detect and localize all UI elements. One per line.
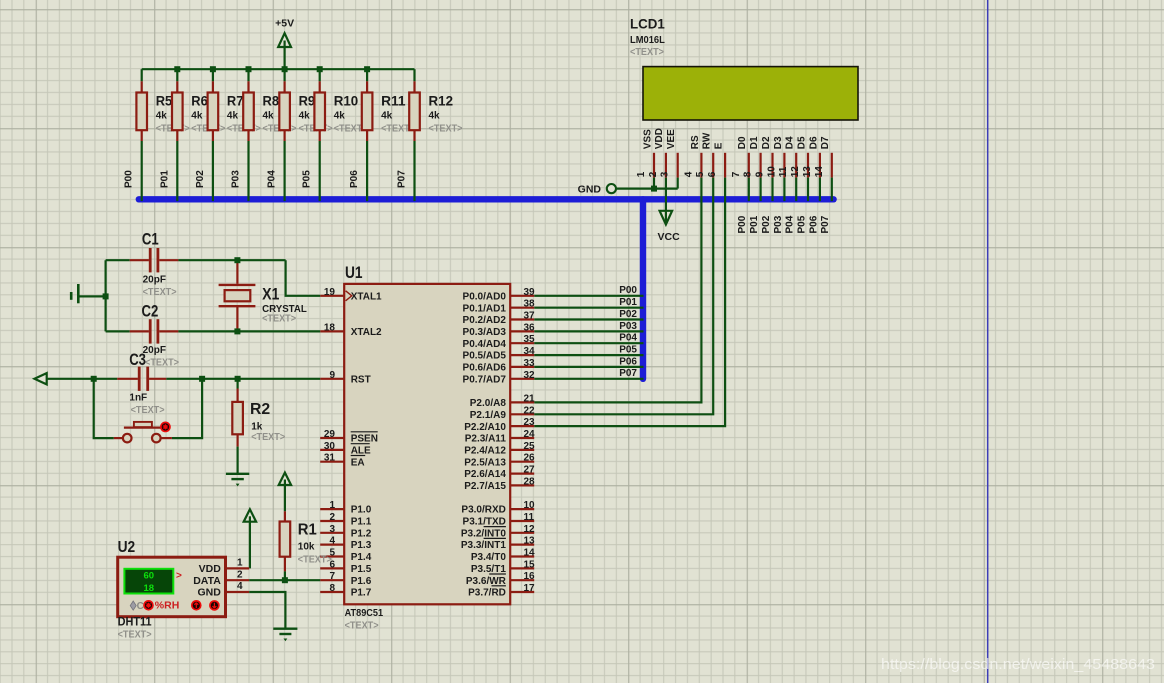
- crystal X1: [219, 260, 307, 331]
- svg-text:XTAL1: XTAL1: [351, 291, 382, 302]
- svg-text:34: 34: [524, 346, 536, 357]
- U1 pin 34 P0.5/AD5: [463, 346, 536, 362]
- svg-text:39: 39: [524, 287, 536, 298]
- sheet border line: [987, 0, 989, 683]
- net labels P00-P07 under bus: [737, 215, 831, 233]
- svg-text:R10: R10: [334, 92, 359, 108]
- U1 pin 4 P1.3: [320, 536, 372, 552]
- svg-text:<TEXT>: <TEXT>: [630, 47, 664, 58]
- U2 pin 4 GND: [197, 581, 249, 598]
- junction RST at R2: [235, 376, 241, 382]
- svg-text:VEE: VEE: [666, 129, 677, 149]
- DHT11 display: [124, 569, 182, 594]
- U1 pin 35 P0.4/AD4: [463, 334, 536, 350]
- svg-text:P02: P02: [619, 309, 637, 320]
- svg-text:P2.6/A14: P2.6/A14: [464, 469, 506, 480]
- svg-text:VDD: VDD: [654, 128, 665, 149]
- U1 pin 10 P3.0/RXD: [461, 500, 535, 516]
- capacitor C3 1nF: [129, 367, 164, 416]
- svg-text:C1: C1: [142, 230, 159, 249]
- svg-text:<TEXT>: <TEXT>: [251, 432, 285, 443]
- svg-text:P0.1/AD1: P0.1/AD1: [463, 303, 507, 314]
- svg-text:35: 35: [524, 334, 536, 345]
- svg-text:R9: R9: [299, 92, 316, 108]
- svg-text:P3.7/RD: P3.7/RD: [468, 588, 506, 599]
- power terminal above R1: [279, 473, 291, 512]
- svg-text:P2.3/A11: P2.3/A11: [465, 434, 507, 445]
- LCD LCD1 display body: [643, 67, 858, 120]
- LCD pin 11 D4: [778, 136, 796, 178]
- svg-text:12: 12: [524, 524, 536, 535]
- wire button right branch: [172, 379, 202, 438]
- LCD pin 8 D1: [743, 136, 761, 178]
- svg-text:15: 15: [524, 559, 536, 570]
- svg-text:<TEXT>: <TEXT>: [118, 629, 152, 640]
- DHT11 down button: [209, 600, 220, 611]
- svg-text:3: 3: [329, 524, 335, 535]
- U1 pin 38 P0.1/AD1: [463, 299, 536, 315]
- svg-text:XTAL2: XTAL2: [351, 327, 382, 338]
- svg-text:4k: 4k: [191, 110, 203, 121]
- wire D3 to bus: [783, 178, 785, 202]
- svg-text:29: 29: [324, 429, 336, 440]
- U1 pin 36 P0.3/AD3: [463, 322, 536, 338]
- svg-text:1: 1: [636, 171, 647, 177]
- svg-text:E: E: [714, 142, 725, 149]
- svg-text:P05: P05: [796, 215, 807, 233]
- resistor R2 1k: [232, 379, 285, 447]
- U1 pin 2 P1.1: [320, 512, 372, 528]
- svg-text:P00: P00: [124, 170, 135, 188]
- svg-text:P01: P01: [619, 297, 637, 308]
- svg-text:VCC: VCC: [658, 231, 681, 243]
- svg-text:P06: P06: [619, 356, 637, 367]
- svg-text:4k: 4k: [227, 110, 239, 121]
- svg-text:6: 6: [707, 171, 718, 177]
- svg-text:P1.6: P1.6: [351, 576, 372, 587]
- svg-text:1nF: 1nF: [129, 393, 147, 404]
- svg-text:24: 24: [524, 429, 536, 440]
- bus horizontal: [139, 196, 834, 202]
- svg-text:32: 32: [524, 370, 536, 381]
- wire D0 to bus: [748, 178, 750, 202]
- wire P07 from R12 to bus: [397, 141, 415, 201]
- wire P00 from R5 to bus: [124, 141, 142, 201]
- svg-text:38: 38: [524, 299, 536, 310]
- +5V power terminal: [275, 17, 294, 69]
- svg-text:<TEXT>: <TEXT>: [262, 314, 296, 325]
- svg-text:P0.7/AD7: P0.7/AD7: [463, 374, 507, 385]
- svg-text:P06: P06: [349, 170, 360, 188]
- svg-text:23: 23: [524, 417, 536, 428]
- svg-text:P2.5/A13: P2.5/A13: [464, 457, 506, 468]
- U1 pin 27 P2.6/A14: [464, 465, 535, 481]
- svg-text:P01: P01: [159, 170, 170, 188]
- U1 pin 19 XTAL1: [320, 287, 382, 303]
- svg-text:EA: EA: [351, 457, 365, 468]
- wire P02 from R7 to bus: [195, 141, 213, 201]
- button interactive marker: [160, 422, 171, 433]
- svg-text:P00: P00: [619, 285, 637, 296]
- svg-text:1k: 1k: [251, 421, 263, 432]
- svg-text:P03: P03: [231, 170, 242, 188]
- LCD pin 9 D2: [755, 136, 773, 178]
- svg-text:RS: RS: [690, 135, 701, 149]
- svg-text:P02: P02: [195, 170, 206, 188]
- svg-text:14: 14: [814, 166, 825, 178]
- svg-text:19: 19: [324, 287, 336, 298]
- wire P0.1 to bus (P01): [534, 297, 643, 308]
- svg-text:P3.1/TXD: P3.1/TXD: [463, 517, 506, 528]
- svg-text:D3: D3: [773, 136, 784, 149]
- svg-text:P1.5: P1.5: [351, 564, 372, 575]
- svg-text:7: 7: [731, 171, 742, 177]
- U1 pin 8 P1.7: [320, 583, 372, 599]
- power rail wire: [142, 68, 415, 70]
- svg-text:PSEN: PSEN: [351, 434, 378, 445]
- wire D1 to bus: [759, 178, 761, 202]
- svg-text:P05: P05: [302, 170, 313, 188]
- svg-text:https://blog.csdn.net/weixin_4: https://blog.csdn.net/weixin_45488643: [881, 656, 1155, 673]
- junction RST left: [91, 376, 97, 382]
- svg-text:36: 36: [524, 322, 536, 333]
- svg-text:13: 13: [802, 166, 813, 178]
- svg-text:11: 11: [524, 512, 535, 523]
- svg-text:2: 2: [237, 569, 243, 580]
- VCC power terminal: [658, 211, 681, 243]
- U1 pin 25 P2.4/A12: [464, 441, 535, 457]
- terminal arrow left: [35, 373, 47, 384]
- wire D4 to bus: [795, 178, 797, 202]
- svg-text:4: 4: [683, 171, 694, 177]
- svg-text:P2.2/A10: P2.2/A10: [464, 422, 506, 433]
- wire P0.0 to bus (P00): [534, 285, 643, 296]
- svg-text:P04: P04: [267, 170, 278, 188]
- svg-text:D5: D5: [796, 136, 807, 149]
- svg-text:R1: R1: [298, 522, 317, 539]
- LCD pin 2 VDD: [648, 128, 666, 178]
- svg-text:P3.4/T0: P3.4/T0: [471, 552, 506, 563]
- LCD LCD1 LM016L labels: [630, 16, 665, 58]
- ground under U2: [273, 628, 297, 630]
- push button (reset): [114, 422, 172, 443]
- svg-text:ALE: ALE: [351, 446, 371, 457]
- GND terminal: [578, 184, 616, 196]
- svg-text:30: 30: [324, 441, 336, 452]
- svg-text:>: >: [176, 571, 182, 582]
- op-amp U1 AT89C51 body: [344, 264, 510, 631]
- svg-text:21: 21: [524, 393, 536, 404]
- svg-text:16: 16: [524, 571, 536, 582]
- svg-text:P07: P07: [397, 170, 408, 188]
- svg-text:R8: R8: [263, 92, 280, 108]
- U1 pin 24 P2.3/A11: [465, 429, 535, 445]
- svg-text:4: 4: [237, 581, 243, 592]
- U1 pin 26 P2.5/A13: [464, 453, 535, 469]
- wire P06 from R11 to bus: [349, 141, 367, 201]
- U2 pin 1 VDD: [199, 558, 250, 575]
- svg-text:DATA: DATA: [193, 575, 221, 587]
- svg-text:12: 12: [790, 166, 801, 178]
- U1 pin 5 P1.4: [320, 548, 372, 564]
- svg-text:AT89C51: AT89C51: [345, 608, 384, 619]
- svg-text:R7: R7: [227, 92, 244, 108]
- svg-text:4k: 4k: [429, 110, 441, 121]
- svg-text:RST: RST: [351, 374, 371, 385]
- wire P01 from R6 to bus: [159, 141, 177, 201]
- wire DATA to P1.6: [249, 579, 320, 581]
- U1 pin 33 P0.6/AD6: [463, 358, 536, 374]
- U1 pin 22 P2.1/A9: [470, 405, 535, 421]
- svg-text:GND: GND: [197, 587, 221, 599]
- capacitor C2 20pF: [142, 301, 180, 368]
- wire left vertical C1-C2: [104, 260, 106, 331]
- U2 pin 2 DATA: [193, 569, 249, 586]
- wire D5 to bus: [807, 178, 809, 202]
- U1 pin 21 P2.0/A8: [470, 393, 535, 409]
- svg-text:P0.5/AD5: P0.5/AD5: [463, 351, 507, 362]
- svg-text:3: 3: [660, 171, 671, 177]
- svg-text:7: 7: [329, 571, 335, 582]
- svg-text:DHT11: DHT11: [118, 616, 153, 628]
- LCD pin 1 VSS: [636, 129, 654, 178]
- svg-text:P1.4: P1.4: [351, 552, 372, 563]
- svg-text:10: 10: [766, 166, 777, 178]
- svg-text:GND: GND: [578, 184, 602, 196]
- wire R1 to DATA: [284, 571, 286, 580]
- U1 pin 32 P0.7/AD7: [463, 370, 536, 386]
- svg-text:P04: P04: [785, 215, 796, 233]
- svg-text:D0: D0: [737, 136, 748, 149]
- svg-text:18: 18: [324, 322, 336, 333]
- svg-text:D2: D2: [761, 136, 772, 149]
- wire P2.0 to LCD RS: [534, 178, 701, 403]
- junction on rail at R9: [282, 66, 288, 72]
- wire P03 from R8 to bus: [231, 141, 249, 201]
- resistor R6 4k: [172, 69, 225, 141]
- svg-text:4k: 4k: [334, 110, 346, 121]
- U1 pin 14 P3.4/T0: [471, 548, 535, 564]
- U1 XTAL1 clock input mark: [346, 291, 352, 301]
- svg-text:<TEXT>: <TEXT>: [131, 405, 165, 416]
- svg-text:P00: P00: [737, 215, 748, 233]
- svg-text:X1: X1: [262, 285, 279, 303]
- svg-text:<TEXT>: <TEXT>: [429, 124, 463, 135]
- svg-text:4k: 4k: [156, 110, 168, 121]
- svg-text:C3: C3: [129, 350, 146, 369]
- resistor R5 4k: [136, 69, 189, 141]
- LCD pin 10 D3: [766, 136, 784, 178]
- svg-text:P0.6/AD6: P0.6/AD6: [463, 363, 507, 374]
- svg-text:1: 1: [237, 558, 243, 569]
- svg-text:25: 25: [524, 441, 536, 452]
- svg-text:28: 28: [524, 476, 536, 487]
- svg-text:33: 33: [524, 358, 536, 369]
- DHT11 status icons: [130, 600, 179, 613]
- wire P0.4 to bus (P04): [534, 333, 643, 344]
- U1 pin 28 P2.7/A15: [464, 476, 535, 492]
- svg-text:R12: R12: [429, 92, 454, 108]
- U1 pin 1 P1.0: [320, 500, 372, 516]
- svg-text:C: C: [137, 601, 144, 612]
- LCD pin 3 VEE: [660, 129, 678, 178]
- wire RST row: [47, 378, 321, 380]
- svg-text:RW: RW: [702, 132, 713, 149]
- svg-text:26: 26: [524, 453, 536, 464]
- U1 pin 37 P0.2/AD2: [463, 311, 536, 327]
- svg-text:20pF: 20pF: [143, 345, 166, 356]
- svg-text:P01: P01: [749, 215, 760, 233]
- svg-text:P05: P05: [619, 344, 637, 355]
- svg-text:<TEXT>: <TEXT>: [345, 621, 379, 632]
- svg-text:P3.3/INT1: P3.3/INT1: [461, 540, 506, 551]
- svg-text:8: 8: [743, 171, 754, 177]
- svg-text:D7: D7: [820, 136, 831, 149]
- wire P2.2 to LCD E: [534, 178, 725, 427]
- junction crystal top: [234, 257, 240, 263]
- resistor R1 10k: [280, 511, 332, 571]
- wire C2 row: [106, 330, 321, 332]
- U1 pin 9 RST: [320, 370, 371, 386]
- svg-text:P0.0/AD0: P0.0/AD0: [463, 291, 507, 302]
- svg-text:9: 9: [755, 171, 766, 177]
- LCD pin 4 RS: [683, 135, 701, 178]
- svg-text:+5V: +5V: [275, 17, 294, 29]
- U1 pin 29 PSEN: [320, 429, 378, 445]
- svg-text:18: 18: [144, 583, 155, 594]
- U1 pin 17 P3.7/RD: [468, 583, 535, 599]
- svg-text:C2: C2: [142, 301, 159, 320]
- svg-text:4k: 4k: [381, 110, 393, 121]
- resistor R9 4k: [279, 69, 332, 141]
- svg-text:P1.2: P1.2: [351, 528, 372, 539]
- svg-text:10: 10: [524, 500, 536, 511]
- LCD pin 6 E: [707, 142, 725, 177]
- U1 pin 11 P3.1/TXD: [463, 512, 535, 528]
- svg-text:P03: P03: [773, 215, 784, 233]
- LCD pin 14 D7: [814, 136, 832, 178]
- wire P04 from R9 to bus: [267, 141, 285, 201]
- svg-text:P03: P03: [619, 321, 637, 332]
- LCD pin 5 RW: [695, 132, 713, 177]
- svg-text:17: 17: [524, 583, 536, 594]
- wire P2.1 to LCD RW: [534, 178, 713, 415]
- svg-text:P1.3: P1.3: [351, 540, 372, 551]
- svg-text:P3.6/WR: P3.6/WR: [466, 576, 507, 587]
- svg-text:9: 9: [329, 370, 335, 381]
- resistor R12 4k: [409, 69, 462, 141]
- svg-text:P1.7: P1.7: [351, 588, 372, 599]
- wire VDD to VCC: [665, 178, 667, 222]
- junction ground tap: [103, 293, 109, 299]
- wire R2 to ground: [237, 447, 239, 474]
- wire D2 to bus: [771, 178, 773, 202]
- svg-text:D6: D6: [808, 136, 819, 149]
- svg-text:P3.2/INT0: P3.2/INT0: [461, 528, 506, 539]
- bus vertical: [640, 199, 646, 378]
- LCD pin 13 D6: [802, 136, 820, 178]
- svg-text:P07: P07: [820, 215, 831, 233]
- resistor R7 4k: [208, 69, 261, 141]
- svg-text:13: 13: [524, 536, 536, 547]
- svg-text:P0.3/AD3: P0.3/AD3: [463, 327, 507, 338]
- svg-text:P0.2/AD2: P0.2/AD2: [463, 315, 507, 326]
- svg-text:P3.0/RXD: P3.0/RXD: [461, 505, 505, 516]
- junction crystal bottom: [234, 328, 240, 334]
- svg-text:4k: 4k: [299, 110, 311, 121]
- junction RST mid: [199, 376, 205, 382]
- svg-text:<TEXT>: <TEXT>: [143, 287, 177, 298]
- wire P0.7 to bus (P07): [534, 368, 643, 379]
- svg-text:LCD1: LCD1: [630, 16, 665, 32]
- svg-text:37: 37: [524, 311, 536, 322]
- svg-text:1: 1: [329, 500, 335, 511]
- svg-text:<TEXT>: <TEXT>: [298, 554, 332, 565]
- wire C1 row: [106, 259, 286, 261]
- svg-text:P1.1: P1.1: [351, 517, 372, 528]
- svg-text:U2: U2: [118, 539, 136, 556]
- resistor R10 4k: [314, 69, 367, 141]
- U1 pin 31 EA: [320, 453, 365, 469]
- svg-text:31: 31: [324, 453, 336, 464]
- svg-text:R5: R5: [156, 92, 173, 108]
- svg-text:2: 2: [329, 512, 335, 523]
- svg-text:P07: P07: [619, 368, 637, 379]
- DHT11 name labels: [118, 616, 153, 640]
- LCD pin 7 D0: [731, 136, 749, 178]
- svg-text:4k: 4k: [263, 110, 275, 121]
- svg-text:P2.1/A9: P2.1/A9: [470, 410, 507, 421]
- junction on rail at R8: [246, 66, 252, 72]
- U1 pin 6 P1.5: [320, 559, 372, 575]
- wire P0.5 to bus (P05): [534, 344, 643, 355]
- svg-text:R11: R11: [381, 92, 406, 108]
- wire P0.2 to bus (P02): [534, 309, 643, 320]
- svg-text:%RH: %RH: [155, 600, 180, 612]
- svg-text:P1.0: P1.0: [351, 505, 372, 516]
- svg-text:20pF: 20pF: [143, 275, 166, 286]
- svg-text:VSS: VSS: [642, 129, 653, 149]
- svg-text:R6: R6: [191, 92, 208, 108]
- U1 pin 23 P2.2/A10: [464, 417, 535, 433]
- U1 pin 7 P1.6: [320, 571, 372, 587]
- svg-text:U1: U1: [345, 264, 363, 282]
- svg-text:22: 22: [524, 405, 536, 416]
- U1 pin 30 ALE: [320, 441, 371, 457]
- svg-text:27: 27: [524, 465, 536, 476]
- wire D6 to bus: [819, 178, 821, 202]
- ground under R2: [226, 473, 249, 475]
- junction on rail at R11: [364, 66, 370, 72]
- junction on rail at R6: [174, 66, 180, 72]
- svg-text:<TEXT>: <TEXT>: [145, 357, 179, 368]
- resistor R11 4k: [362, 69, 415, 141]
- junction at VSS: [651, 186, 657, 192]
- U1 pin 15 P3.5/T1: [471, 559, 535, 575]
- svg-text:VDD: VDD: [199, 563, 222, 575]
- U1 pin 13 P3.3/INT1: [461, 536, 535, 552]
- U1 pin 3 P1.2: [320, 524, 372, 540]
- svg-text:D1: D1: [749, 136, 760, 149]
- svg-text:4: 4: [329, 536, 335, 547]
- ground terminal left: [71, 284, 105, 303]
- svg-text:P0.4/AD4: P0.4/AD4: [463, 339, 507, 350]
- wire P0.6 to bus (P06): [534, 356, 643, 367]
- U1 pin 12 P3.2/INT0: [461, 524, 535, 540]
- sensor U2 DHT11 body: [118, 539, 226, 617]
- wire button left branch: [94, 379, 114, 438]
- U1 pin 39 P0.0/AD0: [463, 287, 536, 303]
